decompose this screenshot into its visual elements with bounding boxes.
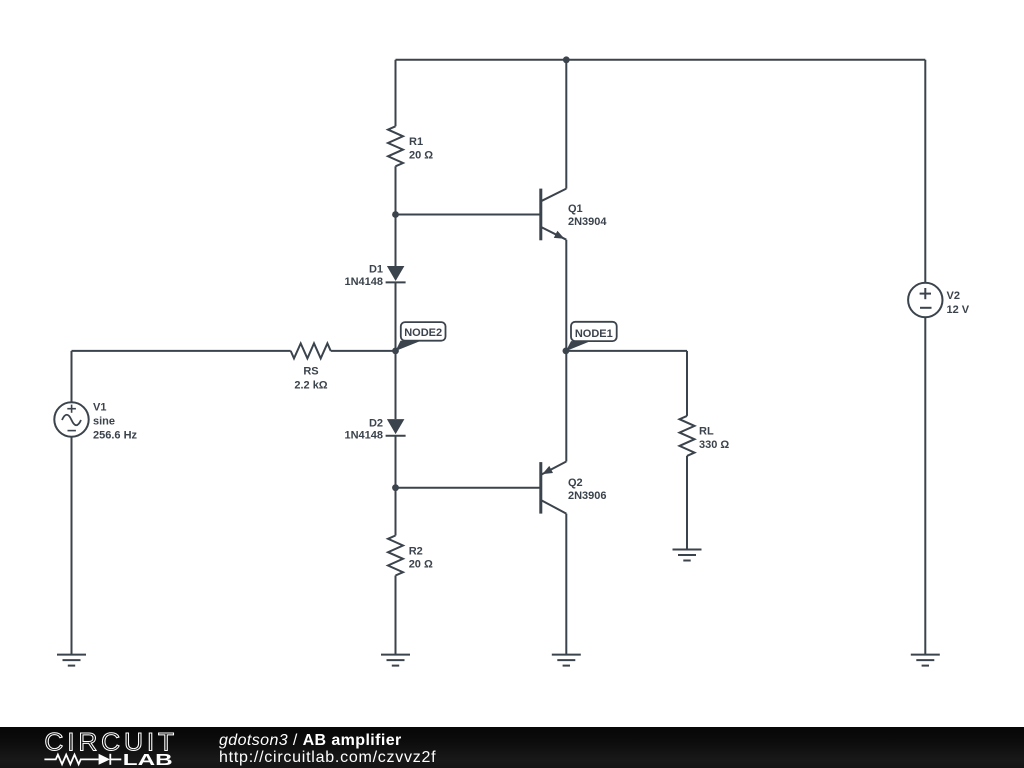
- wire R1 bottom to base junction: [395, 166, 397, 214]
- svg-text:D1: D1: [369, 263, 383, 275]
- node NODE2 dot: [392, 348, 399, 355]
- ground under Q2 collector: [552, 655, 581, 666]
- junction dot Q2 base / D2 / R2: [392, 484, 399, 491]
- wire V2 top lead: [924, 60, 926, 283]
- wire Q2 emitter vertical from NODE1: [565, 351, 567, 462]
- node NODE2 label: [401, 322, 446, 341]
- wire base junction to R2 top: [395, 488, 397, 536]
- svg-text:sine: sine: [93, 415, 115, 427]
- wire V1 bottom lead to ground: [71, 437, 73, 655]
- CircuitLab logo: [0, 727, 190, 768]
- voltage source V2 12V: [908, 283, 942, 317]
- svg-text:RS: RS: [303, 366, 318, 378]
- wire top rail from R1 to V2: [396, 59, 926, 61]
- svg-text:R2: R2: [409, 545, 423, 557]
- svg-text:12 V: 12 V: [947, 304, 970, 316]
- svg-text:2.2 kΩ: 2.2 kΩ: [294, 379, 327, 391]
- resistor R1: [388, 126, 403, 166]
- wire Q1 base: [396, 214, 541, 216]
- ground under RL: [673, 550, 702, 561]
- transistor Q2 2N3906: [541, 462, 567, 514]
- svg-text:V2: V2: [947, 290, 960, 302]
- wire RS to NODE2: [331, 350, 396, 352]
- wire D1 cathode to NODE2: [395, 282, 397, 351]
- svg-text:Q2: Q2: [568, 477, 583, 489]
- svg-text:V1: V1: [93, 401, 106, 413]
- svg-text:20 Ω: 20 Ω: [409, 558, 433, 570]
- wire V1 to RS: [72, 350, 291, 352]
- voltage source V1 sine: [54, 402, 88, 436]
- node NODE2 flag: [396, 341, 422, 351]
- diode D2 1N4148: [386, 419, 406, 436]
- wire base junction to D1 anode: [395, 215, 397, 267]
- wire Q2 base: [396, 487, 541, 489]
- wire NODE2 to D2 anode: [395, 351, 397, 419]
- node NODE1 dot: [563, 348, 570, 355]
- node NODE1 flag: [566, 341, 591, 351]
- resistor R2: [388, 536, 403, 576]
- resistor RL 330: [680, 416, 695, 456]
- wire Q1 collector vertical: [565, 60, 567, 189]
- wire R2 bottom to ground: [395, 576, 397, 655]
- logo resistor-diode glyph: [44, 754, 121, 765]
- ground under V2: [911, 655, 940, 666]
- diode D1 1N4148: [386, 266, 406, 282]
- svg-text:NODE1: NODE1: [575, 328, 613, 340]
- node NODE1 label: [571, 322, 617, 341]
- svg-text:2N3904: 2N3904: [568, 216, 607, 228]
- svg-text:R1: R1: [409, 136, 423, 148]
- svg-text:20 Ω: 20 Ω: [409, 149, 433, 161]
- ground under R2: [381, 655, 410, 666]
- ground under V1: [57, 655, 86, 666]
- svg-text:330 Ω: 330 Ω: [699, 439, 729, 451]
- wire D2 cathode to Q2 base junction: [395, 436, 397, 488]
- wire NODE1 to RL: [566, 350, 687, 352]
- wire Q1 emitter to NODE1: [565, 240, 567, 351]
- junction dot top rail / Q1 collector: [563, 56, 570, 63]
- svg-text:LAB: LAB: [123, 752, 173, 768]
- svg-text:2N3906: 2N3906: [568, 490, 607, 502]
- svg-text:D2: D2: [369, 418, 383, 430]
- svg-text:256.6 Hz: 256.6 Hz: [93, 429, 138, 441]
- svg-text:1N4148: 1N4148: [344, 429, 383, 441]
- svg-text:1N4148: 1N4148: [344, 276, 383, 288]
- svg-text:NODE2: NODE2: [404, 327, 442, 339]
- wire Q2 collector to ground: [565, 514, 567, 655]
- svg-text:RL: RL: [699, 425, 714, 437]
- transistor Q1 2N3904: [541, 189, 567, 241]
- wire RL bottom to ground: [686, 456, 688, 550]
- footer bar: [0, 727, 1024, 768]
- resistor RS 2.2k: [291, 343, 331, 358]
- junction dot Q1 base / R1 / D1: [392, 211, 399, 218]
- wire RL top lead: [686, 351, 688, 416]
- wire R1 top lead: [395, 60, 397, 127]
- wire V2 bottom lead to ground: [924, 317, 926, 654]
- wire V1 top lead: [71, 351, 73, 402]
- footer title text: [219, 733, 436, 766]
- svg-text:Q1: Q1: [568, 203, 583, 215]
